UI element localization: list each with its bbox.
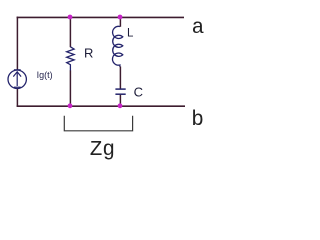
wire inductor-capacitor middle	[119, 67, 121, 89]
wire capacitor lower	[119, 95, 121, 107]
inductor L coil	[112, 26, 122, 67]
wire inductor branch upper	[119, 17, 121, 27]
current source top tick	[14, 69, 21, 71]
svg-text:Zg: Zg	[90, 139, 115, 162]
svg-text:L: L	[127, 27, 134, 39]
junction dot top-left node	[68, 15, 73, 20]
svg-text:R: R	[84, 45, 93, 60]
junction dot bottom-left node	[68, 103, 73, 108]
current source Ig circle	[8, 70, 26, 88]
current source bottom tick	[14, 86, 21, 88]
wire left lower segment	[16, 88, 18, 106]
Zg measurement bracket	[64, 116, 132, 131]
capacitor C top plate	[115, 88, 125, 90]
svg-text:C: C	[134, 84, 143, 99]
capacitor C bottom plate	[115, 93, 125, 95]
wire left upper segment	[16, 17, 18, 71]
wire top horizontal	[17, 16, 184, 18]
junction dot top-right node	[118, 15, 123, 20]
resistor R zigzag	[67, 47, 74, 71]
wire resistor branch upper	[69, 17, 71, 47]
wire bottom horizontal	[17, 105, 185, 107]
current source arrowhead	[14, 72, 21, 76]
svg-text:Ig(t): Ig(t)	[37, 70, 53, 80]
wire resistor branch lower	[69, 71, 71, 107]
svg-text:b: b	[191, 109, 204, 132]
svg-text:a: a	[192, 17, 205, 40]
current source arrow shaft	[16, 72, 18, 86]
junction dot bottom-right node	[118, 103, 123, 108]
